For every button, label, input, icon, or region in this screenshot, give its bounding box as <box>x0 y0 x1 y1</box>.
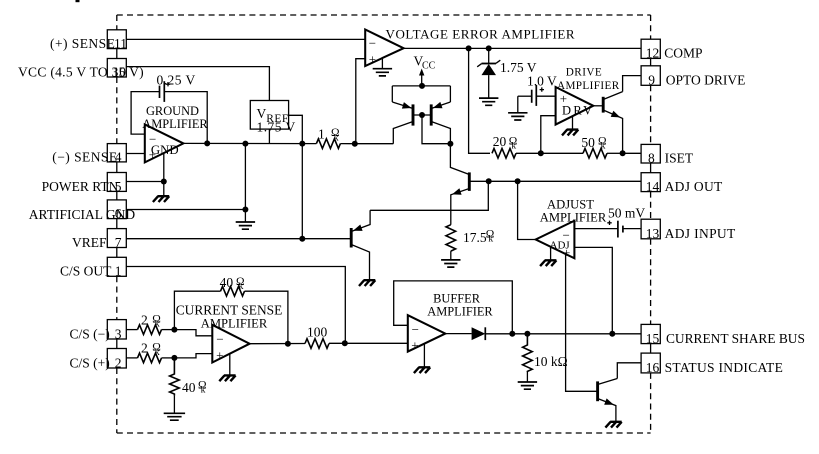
wire pin 5 power rtn <box>126 181 164 183</box>
node bus at buffer box edge <box>509 331 515 337</box>
svg-text:7: 7 <box>115 235 122 250</box>
transistor NPN mirror follower <box>450 144 488 225</box>
svg-text:k: k <box>334 133 339 143</box>
svg-text:1: 1 <box>318 127 325 142</box>
wire pin 6 artificial gnd <box>126 209 245 211</box>
svg-text:k: k <box>239 282 244 292</box>
ground (hatched) power rtn <box>153 196 169 202</box>
wire CSA output <box>250 343 305 345</box>
svg-text:9: 9 <box>648 73 655 88</box>
wire VEA output down to 20k resistor <box>469 48 490 153</box>
svg-text:AMPLIFIER: AMPLIFIER <box>540 211 607 225</box>
svg-text:(+) SENSE: (+) SENSE <box>50 36 115 51</box>
node artificial ground line <box>242 141 248 147</box>
svg-text:VCC (4.5 V TO 35 V): VCC (4.5 V TO 35 V) <box>18 64 144 79</box>
ground (flat) artificial gnd <box>236 222 255 229</box>
svg-text:ADJ OUT: ADJ OUT <box>665 179 723 194</box>
svg-text:0.25 V: 0.25 V <box>157 72 196 87</box>
resistor R 40k to ground (vertical) <box>170 358 180 396</box>
svg-text:C/S OUT: C/S OUT <box>60 264 112 279</box>
svg-text:CURRENT SENSE: CURRENT SENSE <box>176 302 283 317</box>
ground (flat) 1.0 V battery <box>508 113 527 120</box>
svg-text:40: 40 <box>182 380 196 395</box>
label 1k <box>318 127 340 144</box>
wire buffer output to diode <box>445 333 471 335</box>
wire voltage error amp ground stem <box>381 58 383 69</box>
svg-text:ARTIFICIAL GND: ARTIFICIAL GND <box>29 207 136 222</box>
svg-text:10 kΩ: 10 kΩ <box>534 354 568 369</box>
wire adjust amp ground stem <box>550 248 552 261</box>
wire zener drop <box>488 48 490 63</box>
node mirror output <box>447 141 453 147</box>
wire drive amp ground stem <box>572 117 574 130</box>
wire voltage error amp output to pin 12 <box>404 47 641 49</box>
wire drive amp minus input <box>541 116 556 154</box>
svg-text:POWER RTN: POWER RTN <box>42 179 119 194</box>
wire 40k to ground <box>173 396 175 414</box>
pin 14 box <box>641 173 660 194</box>
wire 20k to 50k junction <box>516 152 583 154</box>
node ground amp output at box edge <box>204 140 210 146</box>
svg-text:COMP: COMP <box>664 46 702 61</box>
IC boundary dashed border right segments <box>650 15 652 433</box>
svg-text:40: 40 <box>220 275 234 290</box>
pin 6 box <box>107 200 126 221</box>
IC boundary dashed border left segments <box>116 15 118 433</box>
label 2k (pin 2) <box>141 341 161 358</box>
node vref output <box>299 141 305 147</box>
node buffer input / pin1 drop <box>342 340 348 346</box>
wire CSA plus node to amp <box>174 354 212 358</box>
node CSA plus input <box>171 355 177 361</box>
svg-text:11: 11 <box>114 36 127 51</box>
svg-text:VOLTAGE ERROR AMPLIFIER: VOLTAGE ERROR AMPLIFIER <box>386 26 576 41</box>
ground (flat) zener <box>479 98 498 105</box>
label 2k (pin 3) <box>141 312 161 329</box>
wire buffer amp ground stem <box>423 344 425 368</box>
svg-text:ISET: ISET <box>665 150 694 165</box>
svg-text:k: k <box>488 235 493 245</box>
pin 15 box <box>641 324 660 345</box>
svg-text:CURRENT SHARE BUS: CURRENT SHARE BUS <box>666 331 805 346</box>
svg-text:−: − <box>369 36 376 51</box>
diode D1 <box>472 327 486 340</box>
battery 1.0 V <box>518 85 556 106</box>
transistor current mirror right PNP <box>431 86 450 144</box>
svg-text:2: 2 <box>141 341 148 356</box>
svg-text:AMPLIFIER: AMPLIFIER <box>557 80 620 92</box>
transistor PNP vref follower <box>351 210 370 280</box>
pin 5 box <box>107 173 126 194</box>
svg-text:1.75 V: 1.75 V <box>257 119 296 134</box>
pin 10 box <box>107 59 126 80</box>
pin 2 box <box>107 349 126 371</box>
node vref wire junction <box>299 236 305 242</box>
svg-text:2: 2 <box>115 355 122 370</box>
svg-text:DRV: DRV <box>562 104 595 118</box>
resistor R 2k (pin 2) <box>138 353 162 363</box>
label 40k (lower) <box>182 379 207 395</box>
node CSA minus input <box>171 327 177 333</box>
wire 1k to node <box>340 143 354 145</box>
op-amp drive amplifier triangle DRV <box>556 87 595 125</box>
wire pin 2 lead to 2k resistor <box>126 357 137 359</box>
resistor R 17.5k (vertical) <box>446 225 456 251</box>
ground (hatched) drive amp <box>562 130 578 136</box>
label DRIVE AMPLIFIER <box>557 66 620 92</box>
label 50k <box>581 135 606 152</box>
capacitor 0.25 V offset <box>160 81 171 102</box>
wire pin 9 to drive transistor collector <box>623 76 642 92</box>
svg-text:BUFFER: BUFFER <box>433 291 481 305</box>
ground (hatched) current sense amp <box>219 375 235 381</box>
ground (hatched) adjust amp <box>540 260 556 266</box>
node drive amp minus junction <box>538 150 544 156</box>
label 40k feedback <box>220 275 245 292</box>
IC boundary dashed border top <box>117 14 651 16</box>
svg-text:8: 8 <box>648 150 655 165</box>
resistor R 2k (pin 3) <box>138 325 162 335</box>
op-amp current sense amplifier triangle <box>212 325 249 363</box>
wire pin 16 to status transistor collector <box>617 363 641 379</box>
zener diode 1.75 V <box>477 60 500 98</box>
VREF block box <box>250 101 288 130</box>
wire adj out line <box>489 180 641 182</box>
wire ground amp bottom edge to power rtn ground <box>163 153 165 196</box>
wire pin 8 to 50k node <box>623 152 642 154</box>
svg-text:C/S (−): C/S (−) <box>70 326 110 341</box>
svg-text:+: + <box>411 338 418 353</box>
svg-text:k: k <box>155 320 160 330</box>
svg-text:VREF: VREF <box>72 235 107 250</box>
wire ground amp output line <box>183 142 316 144</box>
pin 12 box <box>641 39 660 60</box>
node VCC rail <box>419 83 425 89</box>
wire vref block output <box>289 115 303 143</box>
pin 11 box <box>107 30 127 51</box>
svg-text:50: 50 <box>581 135 595 150</box>
wire 2k to CSA plus node <box>162 357 175 359</box>
node current mirror base <box>419 112 425 118</box>
svg-text:100: 100 <box>307 324 328 339</box>
svg-text:(−) SENSE: (−) SENSE <box>52 149 117 164</box>
wire 2k to CSA minus node <box>162 329 175 331</box>
label 20k <box>493 134 518 152</box>
ground (flat) 10k <box>518 382 537 389</box>
wire CSA feedback right leg <box>245 291 288 344</box>
IC boundary dashed border bottom <box>117 432 651 434</box>
wire CSA feedback left leg <box>174 291 220 329</box>
svg-text:15: 15 <box>646 331 660 346</box>
label GROUND AMPLIFIER <box>142 104 208 131</box>
wire pin 4 to ground amp lower input <box>126 153 145 155</box>
node VEA output to zener drop <box>486 45 492 51</box>
svg-text:GND: GND <box>151 143 179 157</box>
pin 3 box <box>107 320 126 342</box>
node CSA output <box>285 341 291 347</box>
ground (hatched) vref follower <box>359 280 375 286</box>
svg-text:−: − <box>412 322 419 337</box>
wire adjust amp plus input to share bus <box>574 247 612 333</box>
svg-text:20: 20 <box>493 134 507 149</box>
wire vref node up to 1k node <box>301 144 303 239</box>
transistor NPN drive output <box>593 92 622 154</box>
wire pin 1 C/S OUT to buffer input node <box>126 267 345 344</box>
svg-text:ADJUST: ADJUST <box>547 198 594 212</box>
pin 8 box <box>641 144 660 165</box>
svg-text:CC: CC <box>422 61 436 72</box>
wire current sense amp ground stem <box>229 354 231 376</box>
node bus at adjust amp drop <box>609 331 615 337</box>
label VREF 1.75 V <box>257 106 296 134</box>
wire pin 7 vref to pnp base <box>126 238 350 240</box>
wire artificial gnd node up to vref output line <box>244 144 246 222</box>
wire adjust amp lower output to status transistor base <box>566 254 598 391</box>
label ADJUST AMPLIFIER <box>540 198 607 225</box>
pin 16 box <box>641 353 660 375</box>
wire vref block bottom stub <box>268 129 270 144</box>
wire pin 10 VCC to VREF block <box>126 67 269 101</box>
wire CSA minus node to amp <box>174 330 212 336</box>
ground (flat) below 40k <box>164 413 185 420</box>
label CURRENT SENSE AMPLIFIER <box>176 302 283 330</box>
wire 1k node to mirror left collector <box>355 143 394 145</box>
svg-text:+: + <box>369 52 376 67</box>
pin 13 box <box>641 219 660 241</box>
label VCC <box>414 54 436 72</box>
node artificial gnd junction <box>242 207 248 213</box>
node VEA output to 20k drop <box>466 45 472 51</box>
node vea plus / 1k node <box>352 141 358 147</box>
op-amp voltage error amplifier triangle <box>365 30 403 67</box>
resistor R 50k <box>583 149 607 159</box>
battery 50 mV <box>574 221 641 238</box>
resistor R 100 <box>305 339 329 349</box>
wire mirror base drop to diode node <box>422 115 450 144</box>
ground (flat) voltage error amp <box>373 69 392 76</box>
wire 50k to pin 8 node <box>607 152 623 154</box>
transistor current mirror left PNP <box>392 86 413 144</box>
node power rtn junction <box>161 179 167 185</box>
ground (hatched) status transistor <box>605 422 621 428</box>
node adj out at adjust amp drop <box>515 178 521 184</box>
label BUFFER AMPLIFIER <box>427 291 493 318</box>
node adj out at npn base <box>486 178 492 184</box>
buffer amplifier box <box>394 281 513 334</box>
pin 7 box <box>107 229 126 250</box>
ground amplifier box <box>131 92 207 144</box>
transistor NPN status indicate <box>598 379 618 422</box>
svg-text:17.5: 17.5 <box>463 230 487 245</box>
pin 9 box <box>641 66 660 88</box>
resistor R 20k <box>492 149 516 159</box>
wire 100 to buffer plus input <box>329 342 408 344</box>
svg-text:50 mV: 50 mV <box>608 205 645 220</box>
wire pin 3 lead to 2k resistor <box>126 329 137 331</box>
node iset junction <box>620 150 626 156</box>
svg-text:GROUND: GROUND <box>146 104 199 118</box>
VCC arrow supply <box>419 69 424 86</box>
wire current mirror top rail <box>392 85 450 87</box>
label 17.5k <box>463 228 494 245</box>
stray mark top edge <box>76 0 80 2</box>
op-amp buffer amplifier triangle <box>408 315 446 353</box>
wire battery to ground <box>517 96 519 113</box>
svg-text:1.0 V: 1.0 V <box>527 74 557 89</box>
svg-text:k: k <box>201 386 206 396</box>
op-amp adjust amplifier triangle ADJ (points left) <box>536 221 575 260</box>
svg-text:3: 3 <box>115 326 122 341</box>
ground (flat) 17.5k <box>441 260 460 267</box>
wire current mirror base rail <box>413 114 431 116</box>
svg-text:1: 1 <box>115 264 122 279</box>
wire voltage error amp plus input from vref node <box>356 59 365 144</box>
pin 1 box <box>107 257 126 278</box>
svg-text:16: 16 <box>646 360 660 375</box>
svg-text:−: − <box>216 332 223 347</box>
svg-text:2: 2 <box>141 312 148 327</box>
resistor R 10k (vertical) <box>523 334 533 372</box>
wire share bus line <box>485 333 641 335</box>
wire adjust amp output to adj out line <box>518 181 536 239</box>
svg-text:AMPLIFIER: AMPLIFIER <box>201 316 268 330</box>
svg-text:k: k <box>511 142 516 152</box>
svg-text:k: k <box>155 348 160 358</box>
node bus at 10k <box>524 331 530 337</box>
pin 4 box <box>107 144 126 165</box>
svg-text:k: k <box>601 142 606 152</box>
wire 17.5k to ground <box>450 251 452 260</box>
resistor R 1k <box>316 139 340 149</box>
svg-text:DRIVE: DRIVE <box>566 66 602 78</box>
svg-text:14: 14 <box>646 179 660 194</box>
wire 10k to ground <box>526 372 528 382</box>
wire pin 11 to voltage error amp minus input <box>126 38 365 40</box>
wire emitter rail to adj-out drop <box>370 181 488 210</box>
op-amp ground amplifier triangle GND <box>145 124 184 162</box>
svg-text:13: 13 <box>646 226 660 241</box>
svg-text:C/S (+): C/S (+) <box>70 355 110 370</box>
svg-text:OPTO DRIVE: OPTO DRIVE <box>666 73 746 88</box>
svg-text:STATUS INDICATE: STATUS INDICATE <box>665 360 784 375</box>
ground (hatched) buffer amp <box>414 367 430 373</box>
resistor R 40k feedback <box>221 286 245 296</box>
svg-text:ADJ INPUT: ADJ INPUT <box>665 226 736 241</box>
svg-text:AMPLIFIER: AMPLIFIER <box>427 304 493 318</box>
svg-text:12: 12 <box>646 46 660 61</box>
svg-text:+: + <box>216 348 223 363</box>
svg-text:ADJ: ADJ <box>550 239 571 251</box>
